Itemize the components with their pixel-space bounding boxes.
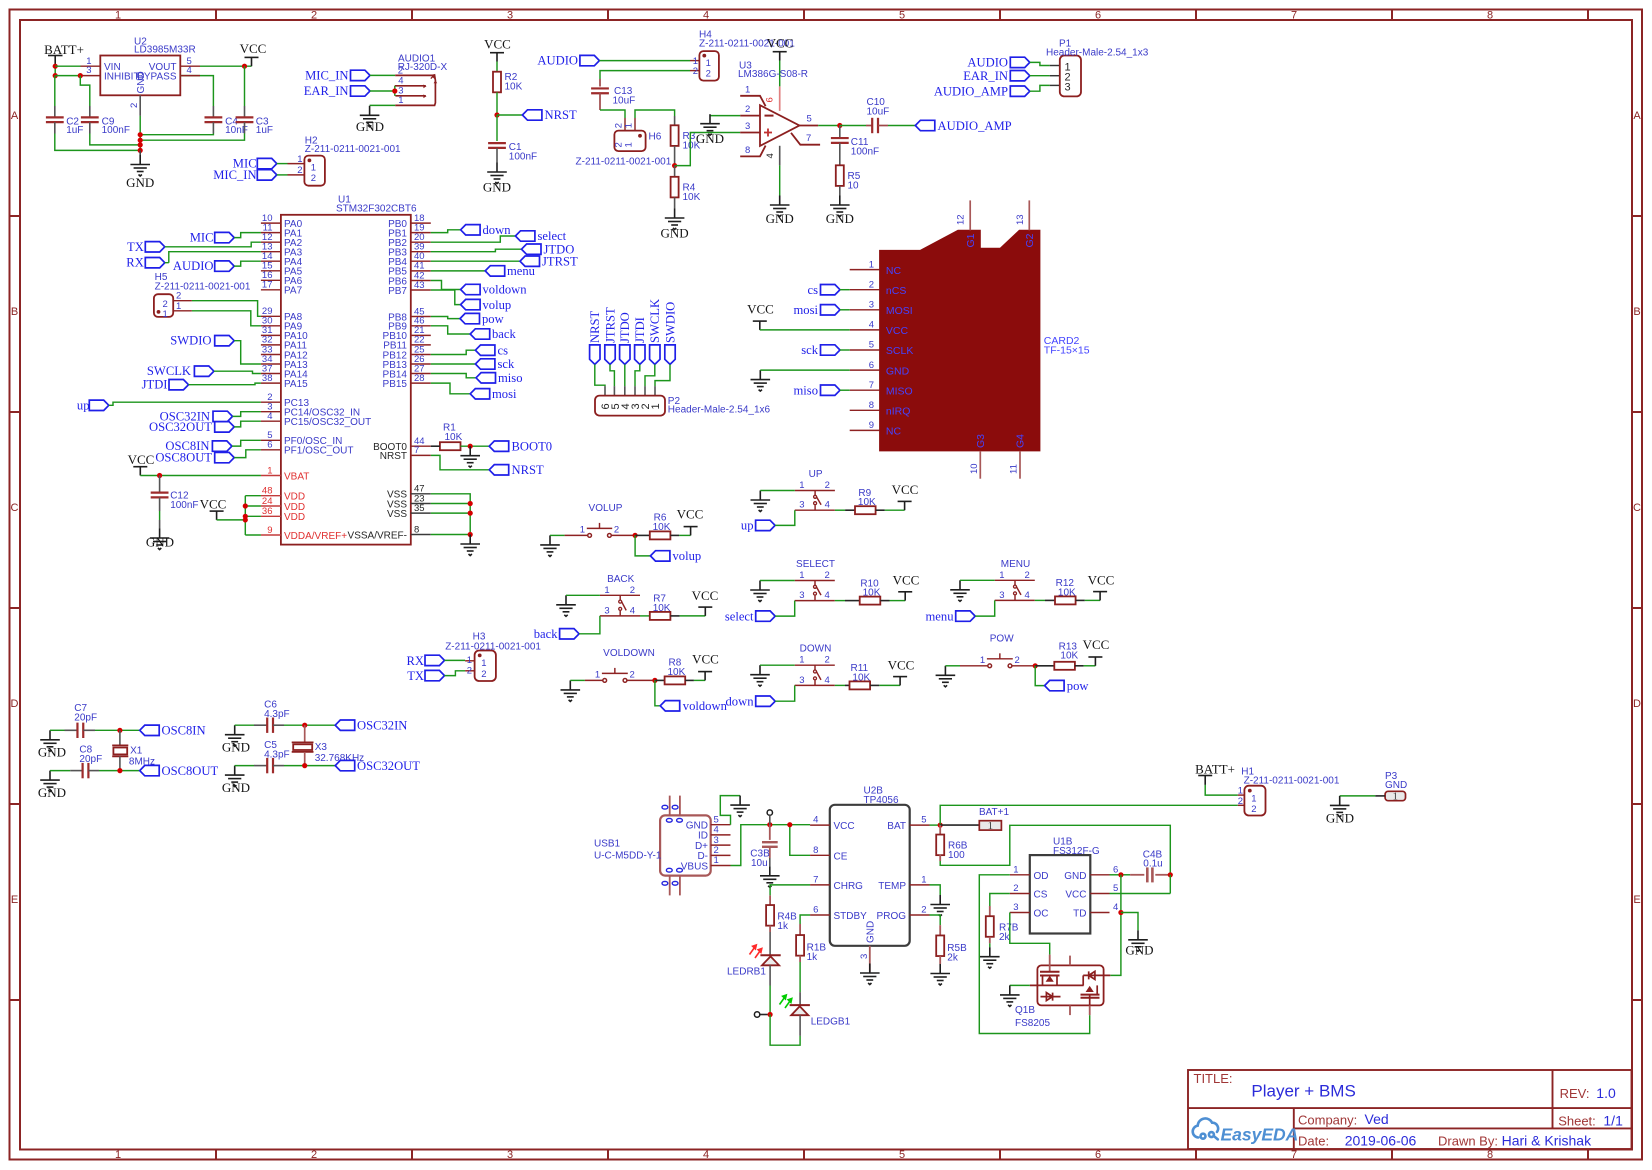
- svg-text:1: 1: [267, 465, 272, 476]
- svg-text:VDD: VDD: [284, 512, 305, 523]
- capacitor C3B: [750, 810, 777, 869]
- U1 pin 17 PA7: [261, 280, 303, 297]
- wire PB to volup: [431, 290, 461, 305]
- net flag SWCLK (U1): [147, 364, 214, 378]
- svg-text:8: 8: [813, 845, 818, 856]
- wire R2 to node: [496, 92, 498, 115]
- ground GND R4: [661, 209, 689, 241]
- svg-text:1: 1: [115, 1149, 121, 1161]
- header H6: [576, 123, 672, 167]
- svg-text:10K: 10K: [863, 588, 881, 599]
- svg-text:2: 2: [693, 66, 698, 77]
- U1 pin 44 BOOT0: [373, 436, 431, 453]
- wire gnd to pin1: [760, 580, 795, 582]
- wire PB to cs: [431, 350, 476, 354]
- resistor R4: [671, 166, 701, 209]
- wire PB to JTDO: [431, 249, 522, 252]
- svg-text:1: 1: [1393, 791, 1399, 803]
- svg-text:4: 4: [703, 1149, 709, 1161]
- crystal X1: [112, 730, 155, 770]
- svg-text:STDBY: STDBY: [834, 911, 868, 922]
- svg-text:6: 6: [813, 905, 818, 916]
- net flag mosi: [470, 387, 517, 401]
- header H3: [445, 632, 541, 681]
- resistor R9: [835, 488, 885, 514]
- power flag VCC: [692, 651, 719, 680]
- svg-text:VCC: VCC: [692, 651, 719, 666]
- net flag OSC32OUT (U1): [149, 420, 234, 434]
- wire gate gnd left: [1010, 984, 1030, 986]
- svg-text:10: 10: [969, 463, 980, 474]
- svg-text:NC: NC: [886, 265, 902, 277]
- svg-text:VCC: VCC: [1088, 572, 1115, 587]
- ground: [540, 535, 560, 556]
- svg-text:EAR_IN: EAR_IN: [304, 84, 349, 98]
- pushbutton BACK: [600, 574, 640, 617]
- wire CE branch: [790, 825, 810, 856]
- U1 pin 31 PA10: [261, 325, 308, 342]
- svg-text:1: 1: [980, 655, 985, 666]
- wire PB to mosi: [431, 383, 470, 394]
- wire CHRG to R4B: [770, 885, 810, 896]
- svg-text:2: 2: [1013, 883, 1018, 894]
- svg-text:1uF: 1uF: [66, 125, 83, 136]
- svg-text:E: E: [11, 894, 18, 906]
- svg-text:up: up: [741, 519, 754, 533]
- svg-text:SCLK: SCLK: [886, 345, 913, 357]
- svg-text:SWDIO: SWDIO: [663, 302, 677, 343]
- U1 pin 6 PF1/OSC_OUT: [261, 440, 354, 457]
- svg-text:VCC: VCC: [747, 302, 774, 317]
- net flag OSC8OUT: [140, 764, 219, 778]
- wire GND net down to gate: [1110, 875, 1121, 976]
- svg-text:100: 100: [948, 850, 965, 861]
- power flag VCC: [677, 506, 704, 535]
- U1 pin 9 VDDA/VREF+: [261, 525, 347, 542]
- net flag down: [726, 694, 776, 708]
- ground: [750, 665, 770, 686]
- power flag VCC (R2): [484, 37, 511, 62]
- wire R1B to LEDGB1: [799, 962, 801, 1005]
- svg-text:BOOT0: BOOT0: [512, 439, 553, 453]
- svg-text:3: 3: [1013, 902, 1018, 913]
- wire VCC down to C3: [244, 66, 246, 106]
- svg-text:UP: UP: [809, 469, 823, 480]
- svg-text:4: 4: [869, 320, 874, 331]
- U1 pin 10 PA0: [261, 213, 303, 230]
- USB1 pin 5 GND: [686, 814, 731, 831]
- svg-text:NRST: NRST: [380, 451, 407, 462]
- svg-text:2k: 2k: [947, 953, 959, 964]
- capacitor C8: [50, 745, 102, 779]
- wire junction to opamp pin3: [675, 133, 741, 166]
- wire: [234, 421, 261, 427]
- svg-text:JTDI: JTDI: [633, 317, 647, 343]
- svg-text:8: 8: [1487, 1149, 1493, 1161]
- svg-text:LEDGB1: LEDGB1: [811, 1017, 851, 1028]
- svg-text:10: 10: [848, 181, 860, 192]
- svg-text:OSC8OUT: OSC8OUT: [155, 451, 212, 465]
- U2B pin 6 STDBY: [810, 905, 867, 923]
- net flag OSC32IN: [335, 718, 407, 732]
- node VCC junction: [242, 64, 247, 69]
- net flag NRST (U1): [489, 463, 544, 477]
- ground GND jack: [356, 106, 384, 134]
- svg-text:VCC: VCC: [484, 37, 511, 52]
- frame column ticks bottom: [216, 1150, 1588, 1160]
- net flag JTRST: [520, 254, 578, 268]
- wire AUDIO to H4 pin1: [599, 60, 699, 62]
- resistor R7: [640, 594, 680, 620]
- crystal X3: [292, 725, 364, 765]
- svg-text:9: 9: [267, 525, 272, 536]
- svg-text:2: 2: [745, 104, 750, 115]
- svg-text:miso: miso: [794, 383, 819, 397]
- U1 pin 5 PF0/OSC_IN: [261, 430, 342, 447]
- node EAR_IN junction: [392, 88, 397, 93]
- svg-text:BAT+1: BAT+1: [979, 807, 1010, 818]
- power flag VCC: [692, 588, 719, 616]
- wire VCC to R2: [496, 62, 498, 72]
- ground GND R7B: [980, 947, 1000, 968]
- wire node to C1: [496, 115, 498, 141]
- svg-text:7: 7: [869, 380, 874, 391]
- svg-text:Z-211-0211-0021-001: Z-211-0211-0021-001: [305, 144, 401, 155]
- svg-text:20pF: 20pF: [74, 713, 97, 724]
- capacitor C10: [840, 97, 889, 133]
- resistor R5: [836, 165, 861, 195]
- svg-text:5: 5: [1113, 883, 1118, 894]
- wire C6 to OSC32IN: [284, 724, 335, 726]
- svg-text:2: 2: [614, 524, 619, 535]
- frame row ticks right: [1632, 216, 1642, 1000]
- svg-text:INHIBIT: INHIBIT: [104, 71, 140, 82]
- svg-text:1: 1: [799, 570, 804, 581]
- svg-text:Date:: Date:: [1298, 1134, 1329, 1149]
- svg-text:2: 2: [311, 173, 316, 184]
- wire PB to back: [431, 326, 470, 334]
- wire RX to H3 pin1: [445, 659, 475, 661]
- svg-text:RJ-320D-X: RJ-320D-X: [398, 62, 448, 73]
- net flag TX (U1): [127, 240, 165, 254]
- svg-text:3: 3: [859, 954, 870, 959]
- svg-text:Header-Male-2.54_1x6: Header-Male-2.54_1x6: [668, 405, 771, 416]
- svg-text:REV:: REV:: [1560, 1086, 1590, 1101]
- svg-text:MIC_IN: MIC_IN: [305, 69, 348, 83]
- CARD2 pin 4 VCC: [850, 320, 909, 338]
- led LEDGB1: [780, 995, 851, 1028]
- svg-text:10K: 10K: [683, 192, 701, 203]
- wire node to NRST flag: [497, 114, 522, 116]
- svg-text:7: 7: [1291, 1149, 1297, 1161]
- U1 pin 11 PA1: [261, 222, 303, 239]
- svg-text:Z-211-0211-0021-001: Z-211-0211-0021-001: [1244, 775, 1340, 786]
- ground: [561, 680, 581, 701]
- resistor R13: [1035, 641, 1083, 670]
- svg-text:2: 2: [129, 103, 140, 108]
- node out junction: [837, 123, 842, 128]
- svg-text:2: 2: [311, 10, 317, 22]
- U1 pin 14 PA4: [261, 251, 303, 268]
- net flag menu: [926, 609, 976, 623]
- wire NRST to P2: [595, 364, 605, 395]
- svg-text:pow: pow: [1067, 679, 1090, 693]
- ground GND P3: [1326, 796, 1354, 826]
- ground GND pin4: [766, 196, 794, 227]
- power flag VCC: [1083, 637, 1110, 666]
- svg-text:VCC: VCC: [128, 452, 155, 467]
- svg-text:4: 4: [825, 590, 830, 601]
- svg-text:GND: GND: [1125, 943, 1153, 958]
- wire BATT+ to H1 pin1: [1205, 785, 1244, 795]
- wire VSS bus: [431, 494, 470, 535]
- capacitor C5: [235, 740, 290, 773]
- svg-text:VCC: VCC: [677, 506, 704, 521]
- led LEDRB1: [727, 945, 781, 978]
- sd card CARD2 body: [880, 230, 1040, 451]
- wire JTDO to P2: [624, 364, 626, 395]
- svg-text:2: 2: [630, 585, 635, 596]
- svg-text:TX: TX: [127, 240, 144, 254]
- net flag sck (CARD2): [801, 343, 840, 357]
- protection ic U1B FS312F-G: [1010, 837, 1118, 934]
- svg-text:back: back: [534, 627, 558, 641]
- U1 pin 41 PB5: [388, 261, 431, 278]
- svg-text:5: 5: [807, 114, 812, 125]
- svg-text:AUDIO: AUDIO: [967, 56, 1008, 70]
- U1 pin 1 VBAT: [261, 465, 309, 482]
- U1 pin 13 PA3: [261, 242, 303, 259]
- wire flag to pin3: [775, 510, 795, 525]
- net flag AUDIO_AMP (P1): [934, 84, 1030, 98]
- svg-text:RX: RX: [407, 654, 425, 668]
- svg-text:10K: 10K: [852, 672, 870, 683]
- svg-text:GND: GND: [483, 180, 511, 195]
- svg-text:menu: menu: [926, 609, 955, 623]
- svg-text:U-C-M5DD-Y-1: U-C-M5DD-Y-1: [594, 851, 662, 862]
- pushbutton VOLDOWN: [595, 648, 655, 682]
- net port P3 GND: [1385, 771, 1407, 803]
- wire PB to sck: [431, 363, 476, 365]
- svg-text:1: 1: [115, 10, 121, 22]
- power flag VCC: [1088, 572, 1115, 600]
- USB1 pin 4 ID: [698, 825, 731, 842]
- svg-text:BACK: BACK: [607, 574, 635, 585]
- svg-text:1: 1: [624, 142, 635, 147]
- header H4: [693, 29, 796, 80]
- U1B pin 4 TD: [1073, 902, 1118, 920]
- net flag miso: [476, 371, 523, 385]
- svg-text:GND: GND: [1326, 811, 1354, 826]
- node VBAT junction: [157, 473, 162, 478]
- svg-text:Z-211-0211-0021-001: Z-211-0211-0021-001: [576, 157, 672, 168]
- wire to VCC: [694, 679, 705, 681]
- svg-text:NRST: NRST: [588, 311, 602, 343]
- U2B pin 8 CE: [810, 845, 848, 863]
- header H5: [154, 272, 251, 320]
- U1B pin 3 OC: [1010, 902, 1049, 920]
- wire: [234, 341, 261, 364]
- svg-text:VCC: VCC: [200, 497, 227, 512]
- U2B pin 1 TEMP: [878, 874, 929, 892]
- wire: [232, 440, 261, 446]
- svg-text:TITLE:: TITLE:: [1194, 1071, 1233, 1086]
- svg-text:CS: CS: [1034, 890, 1048, 901]
- wire H1 pin2 stub: [1238, 804, 1245, 806]
- svg-text:3: 3: [799, 590, 804, 601]
- wire gnd to pin1: [760, 664, 795, 666]
- wire VBUS to VCC: [731, 825, 811, 866]
- svg-text:4.3pF: 4.3pF: [264, 750, 290, 761]
- svg-text:2: 2: [869, 279, 874, 290]
- U2 pin4 wire to C4: [180, 76, 213, 106]
- svg-text:GND: GND: [696, 131, 724, 146]
- U1 pin 12 PA2: [261, 232, 303, 249]
- header H2: [297, 135, 401, 185]
- wire gnd to pin1: [760, 490, 795, 492]
- svg-text:VOLDOWN: VOLDOWN: [603, 648, 655, 659]
- svg-text:RX: RX: [126, 256, 144, 270]
- node VBUS junction: [767, 822, 772, 827]
- svg-text:OSC32IN: OSC32IN: [357, 718, 407, 732]
- svg-text:VCC: VCC: [834, 821, 855, 832]
- svg-text:5: 5: [899, 10, 905, 22]
- wire LED bottom loop: [770, 1015, 800, 1046]
- svg-text:3: 3: [799, 500, 804, 511]
- svg-text:3: 3: [507, 10, 513, 22]
- svg-text:BATT+: BATT+: [1195, 762, 1235, 777]
- net flag RX (H3): [407, 654, 445, 668]
- svg-text:volup: volup: [483, 298, 512, 312]
- wire to VCC: [885, 509, 905, 511]
- svg-text:7: 7: [1291, 10, 1297, 22]
- net flag pow: [1045, 679, 1090, 693]
- node TD junction: [1118, 910, 1123, 915]
- wire JTDI to P2: [635, 364, 640, 395]
- svg-text:GND: GND: [1385, 780, 1407, 791]
- svg-text:VBAT: VBAT: [284, 471, 309, 482]
- power flag VCC: [888, 657, 915, 685]
- power flag BATT+: [44, 42, 84, 66]
- svg-text:menu: menu: [507, 264, 536, 278]
- wire PB to JTRST: [431, 260, 520, 262]
- U1 pin 28 PB15: [383, 373, 431, 390]
- ground GND C1: [483, 163, 511, 195]
- svg-text:D: D: [1633, 698, 1641, 710]
- CARD2 pin 5 SCLK: [850, 340, 914, 358]
- svg-text:X1: X1: [130, 746, 143, 757]
- wire PB to menu: [431, 270, 485, 272]
- wire opamp pin2 to gnd: [710, 115, 740, 117]
- svg-text:10K: 10K: [505, 82, 523, 93]
- svg-text:JTDI: JTDI: [142, 378, 168, 392]
- ground GND USB: [730, 796, 750, 817]
- wire gnd to pin1: [960, 579, 995, 581]
- resistor R8: [655, 658, 694, 685]
- net flag TX (H3): [407, 669, 444, 683]
- resistor R6B: [936, 825, 968, 861]
- wire jack pin2: [370, 74, 395, 76]
- wire flag to pin3: [775, 601, 795, 617]
- resistor R4B: [766, 895, 797, 955]
- node VOLUP junction: [633, 533, 638, 538]
- svg-text:G2: G2: [1024, 233, 1036, 247]
- resistor R7B: [986, 906, 1019, 947]
- net flag MIC: [233, 157, 277, 171]
- capacitor C6: [235, 700, 290, 733]
- svg-text:0.1u: 0.1u: [1143, 859, 1162, 870]
- svg-text:Drawn By:: Drawn By:: [1438, 1134, 1498, 1149]
- wire flag to pin3: [775, 685, 795, 701]
- svg-text:5: 5: [869, 340, 874, 351]
- svg-text:4.3pF: 4.3pF: [264, 709, 290, 720]
- svg-text:BAT: BAT: [887, 821, 906, 832]
- header H1: [1238, 767, 1340, 816]
- node OSC8OUT junction: [117, 768, 122, 773]
- svg-text:A: A: [1633, 110, 1641, 122]
- net flag up (U1): [77, 398, 109, 412]
- wire C10 to flag: [888, 125, 915, 127]
- wire AUDIO_AMP to P1 pin3: [1030, 85, 1060, 91]
- net flag RX (U1): [126, 256, 165, 270]
- svg-text:43: 43: [414, 280, 425, 291]
- ground GND VSS: [460, 535, 480, 556]
- U2B pin 7 CHRG: [810, 874, 863, 892]
- ground GND R5: [826, 196, 854, 227]
- node VSS junctions: [468, 501, 473, 506]
- resistor R2: [493, 72, 523, 93]
- wire H4 pin2 to C13: [600, 71, 699, 79]
- svg-text:PA15: PA15: [284, 379, 308, 390]
- svg-text:MIC_IN: MIC_IN: [213, 168, 256, 182]
- wire VDD bus: [245, 496, 261, 535]
- wire to VCC: [1085, 599, 1100, 601]
- svg-text:2: 2: [921, 905, 926, 916]
- node C4B left junction: [1118, 872, 1123, 877]
- svg-text:9: 9: [869, 420, 874, 431]
- svg-text:B: B: [1633, 306, 1640, 318]
- wire: [165, 242, 261, 247]
- svg-text:1: 1: [650, 403, 662, 409]
- svg-text:28: 28: [414, 373, 425, 384]
- resistor R1: [440, 423, 463, 451]
- svg-text:nCS: nCS: [886, 285, 906, 297]
- U1 pin 18 PB0: [388, 213, 431, 230]
- U2 pin2 lead: [139, 95, 141, 116]
- node OSC32OUT junction: [302, 763, 307, 768]
- net flag back: [470, 327, 516, 341]
- svg-text:VDDA/VREF+: VDDA/VREF+: [284, 531, 347, 542]
- svg-text:3: 3: [86, 65, 91, 76]
- svg-text:miso: miso: [498, 371, 523, 385]
- svg-text:PB15: PB15: [383, 379, 408, 390]
- svg-text:2019-06-06: 2019-06-06: [1345, 1133, 1417, 1149]
- svg-text:8: 8: [869, 400, 874, 411]
- ground GND C7: [38, 730, 66, 759]
- wire PB to down: [431, 230, 461, 233]
- svg-text:Q1B: Q1B: [1015, 1005, 1035, 1016]
- svg-text:MISO: MISO: [886, 385, 913, 397]
- net flag volup: [650, 549, 701, 563]
- wire PB to voldown: [431, 281, 461, 290]
- svg-text:100nF: 100nF: [851, 146, 879, 157]
- net flag AUDIO (U1): [173, 259, 234, 273]
- U1 pin 32 PA11: [261, 335, 308, 352]
- net flag SWDIO (U1): [170, 334, 234, 348]
- wire EAR_IN to P1 pin2: [1030, 75, 1060, 77]
- CARD2 pin 12 G1: [956, 200, 977, 247]
- svg-text:sck: sck: [801, 343, 818, 357]
